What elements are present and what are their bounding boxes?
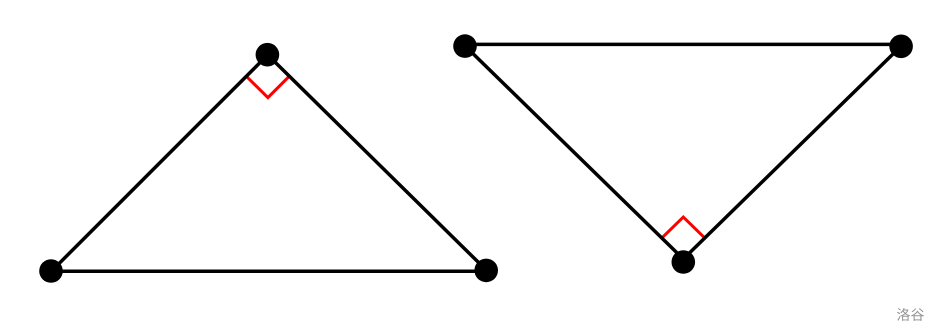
node A: apex vertex dot of left triangle xyxy=(256,43,280,67)
node C: bottom-right vertex dot of left triangle xyxy=(474,259,498,283)
node E: top-right vertex dot of right triangle xyxy=(889,35,913,59)
wire: right triangle edge E-F (top-right to bottom) xyxy=(683,44,903,259)
node F: bottom vertex dot of right triangle xyxy=(672,250,696,274)
wire: left triangle edge A-B (apex to bottom-left) xyxy=(51,55,267,271)
wire: left triangle base B-C xyxy=(51,270,487,274)
watermark text "谷" (Luogu) xyxy=(911,308,924,321)
right-angle marker square at apex A of left triangle (under edges) xyxy=(246,55,289,98)
wire: right triangle edge D-F (top-left to bottom) xyxy=(464,44,684,259)
node D: top-left vertex dot of right triangle xyxy=(453,34,477,58)
watermark text "洛" (Luogu) xyxy=(897,308,910,321)
wire: right triangle top edge D-E xyxy=(464,43,903,47)
node B: bottom-left vertex dot of left triangle xyxy=(39,259,63,283)
right-angle marker square at bottom vertex F of right triangle (under edges) xyxy=(662,217,705,259)
wire: left triangle edge A-C (apex to bottom-right) xyxy=(268,55,488,271)
